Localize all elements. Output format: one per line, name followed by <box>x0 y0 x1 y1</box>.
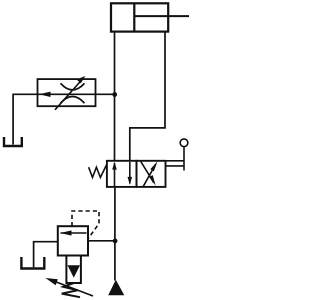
relief valve spring <box>62 283 80 297</box>
wire: cylinder left port down to valve <box>114 32 116 161</box>
node: junction of supply line and relief valve <box>113 239 118 244</box>
valve down arrow <box>129 162 131 184</box>
relief valve neck <box>66 256 81 284</box>
wire: valve bottom port to pressure source <box>114 187 116 281</box>
relief valve seat triangle <box>68 265 81 278</box>
relief valve pilot line (dashed) <box>72 211 99 239</box>
directional valve body right position (crossed arrows) <box>137 161 166 187</box>
cylinder piston rod <box>134 15 189 17</box>
tank 1 <box>4 137 22 146</box>
flow control valve body <box>38 79 96 106</box>
directional valve body left position (parallel arrows) <box>107 161 137 187</box>
wire: relief valve to tank 2 <box>34 242 58 268</box>
node: junction of cylinder line and flow control line <box>112 92 117 97</box>
relief valve adjustment arrow <box>52 280 93 296</box>
valve plunger actuator <box>166 160 185 162</box>
flow control internal flow line <box>38 93 96 95</box>
relief valve body <box>58 226 88 255</box>
cylinder body (double-acting cylinder) <box>111 3 168 31</box>
relief valve internal arrow (offset, closed) <box>61 232 87 234</box>
wire: flow control to junction <box>96 93 115 95</box>
flow control lower throttle arc <box>61 97 85 104</box>
cylinder piston <box>133 3 135 31</box>
pressure source triangle <box>108 280 124 295</box>
wire: cylinder right port down <box>130 32 165 161</box>
flow control adjustment arrow <box>55 79 83 110</box>
tank 2 <box>21 257 44 269</box>
flow control arrowhead (flow to left) <box>39 92 51 97</box>
flow control upper throttle arc <box>61 83 85 90</box>
valve roller <box>180 139 188 147</box>
wire: flow control to tank 1 <box>13 94 38 144</box>
valve return spring <box>89 164 107 177</box>
valve crossed arrow down-right <box>141 162 154 183</box>
valve crossed arrow up-right <box>143 164 155 186</box>
wire: relief valve to supply junction <box>88 240 115 242</box>
valve up arrow <box>114 163 116 186</box>
